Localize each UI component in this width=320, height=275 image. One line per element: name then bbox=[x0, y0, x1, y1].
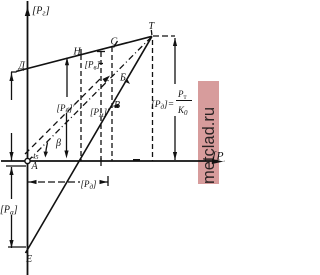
vertical dashed projection below Т x=152 bbox=[152, 40, 154, 161]
watermark box metclad.ru bbox=[198, 81, 219, 184]
x=67 dimension top arrowhead bbox=[65, 58, 69, 66]
bottom dimension right arrowhead bbox=[100, 180, 108, 184]
bottom dimension [Pд] dashed part bbox=[28, 181, 80, 183]
svg-text:С: С bbox=[111, 37, 118, 48]
left dimension bottom arrowhead bbox=[9, 152, 13, 160]
45deg dashed line А-Т bbox=[28, 36, 152, 161]
bottom dimension right end tick bbox=[107, 176, 109, 186]
bottom dimension [Pд] right part bbox=[104, 181, 108, 183]
right dimension line x=175 lower segment bbox=[174, 116, 176, 160]
svg-text:[Pа]: [Pа] bbox=[0, 205, 18, 217]
tick at Т bbox=[150, 30, 153, 35]
parallel dimension line А-Б bbox=[25, 77, 102, 154]
svg-text:β: β bbox=[55, 138, 61, 149]
vertical dimension line x=67 upper segment bbox=[66, 58, 68, 98]
small arrowhead at В bbox=[113, 104, 120, 108]
horizontal dashed from Т to right bbox=[153, 35, 175, 37]
vertical dashed projection at С x=112 bbox=[111, 47, 113, 161]
small dash right of [Pв] bbox=[99, 63, 103, 65]
right dimension line x=175 upper segment bbox=[174, 38, 176, 84]
left dimension line x=11.5 lower segment bbox=[11, 133, 13, 161]
svg-text:Б: Б bbox=[119, 73, 126, 84]
svg-text:45: 45 bbox=[32, 154, 39, 161]
vertical dashed projection at Н x=81 bbox=[80, 55, 82, 161]
line Е-Т bbox=[26, 36, 153, 253]
cap tick on x=101 line bbox=[97, 51, 105, 53]
line Д-Н-С-Т bbox=[16, 36, 152, 71]
left dimension top arrowhead bbox=[9, 73, 13, 81]
horizontal axis [P] bbox=[1, 160, 218, 162]
bottom-left dimension bottom tick bbox=[8, 246, 26, 248]
bottom-left dimension [Pа] lower segment bbox=[11, 215, 13, 248]
svg-text:А: А bbox=[31, 161, 39, 172]
svg-text:Д: Д bbox=[18, 61, 26, 72]
bottom-left dimension bottom arrowhead bbox=[9, 240, 13, 248]
horizontal axis arrowhead bbox=[212, 159, 224, 164]
svg-text:[Pг]: [Pг] bbox=[32, 5, 50, 18]
svg-text:Е: Е bbox=[25, 254, 32, 265]
vertical dimension line x=67 lower segment bbox=[66, 113, 68, 151]
tick at С on slant line bbox=[114, 41, 118, 48]
vertical axis arrowhead bbox=[25, 7, 30, 16]
x=67 dimension bottom arrowhead bbox=[64, 151, 68, 159]
svg-text:Н: Н bbox=[73, 47, 82, 58]
small arrowhead below Б bbox=[125, 79, 131, 85]
45deg angle pointer arrowhead bbox=[44, 152, 49, 158]
tick at Н on slant line bbox=[80, 49, 82, 55]
tick joining left dimension to line Д bbox=[11, 71, 17, 73]
svg-text:В: В bbox=[114, 100, 120, 111]
bottom-left dimension top tick bbox=[6, 165, 26, 167]
bottom dimension left arrowhead bbox=[29, 180, 37, 184]
vertical axis [Pг] bbox=[27, 1, 29, 275]
bottom-left dimension top arrowhead bbox=[9, 167, 13, 175]
formula fraction bar bbox=[176, 100, 192, 102]
right dimension top arrowhead bbox=[173, 38, 177, 46]
svg-text:metclad.ru: metclad.ru bbox=[200, 107, 218, 184]
tick where x=101 line crosses axis bbox=[100, 158, 102, 166]
vertical dashed line x=101 bbox=[100, 52, 102, 161]
right dimension bottom arrowhead bbox=[173, 152, 177, 160]
left dimension line x=11.5 upper segment bbox=[11, 72, 13, 100]
diagonal dimension arrowhead at Б bbox=[103, 76, 111, 84]
origin node А bbox=[25, 158, 30, 163]
svg-text:[Р]: [Р] bbox=[212, 151, 225, 163]
bottom-left dimension [Pа] upper segment bbox=[11, 167, 13, 199]
thick tick on axis near x=136 bbox=[133, 159, 140, 161]
45deg angle pointer arc bbox=[46, 143, 48, 156]
